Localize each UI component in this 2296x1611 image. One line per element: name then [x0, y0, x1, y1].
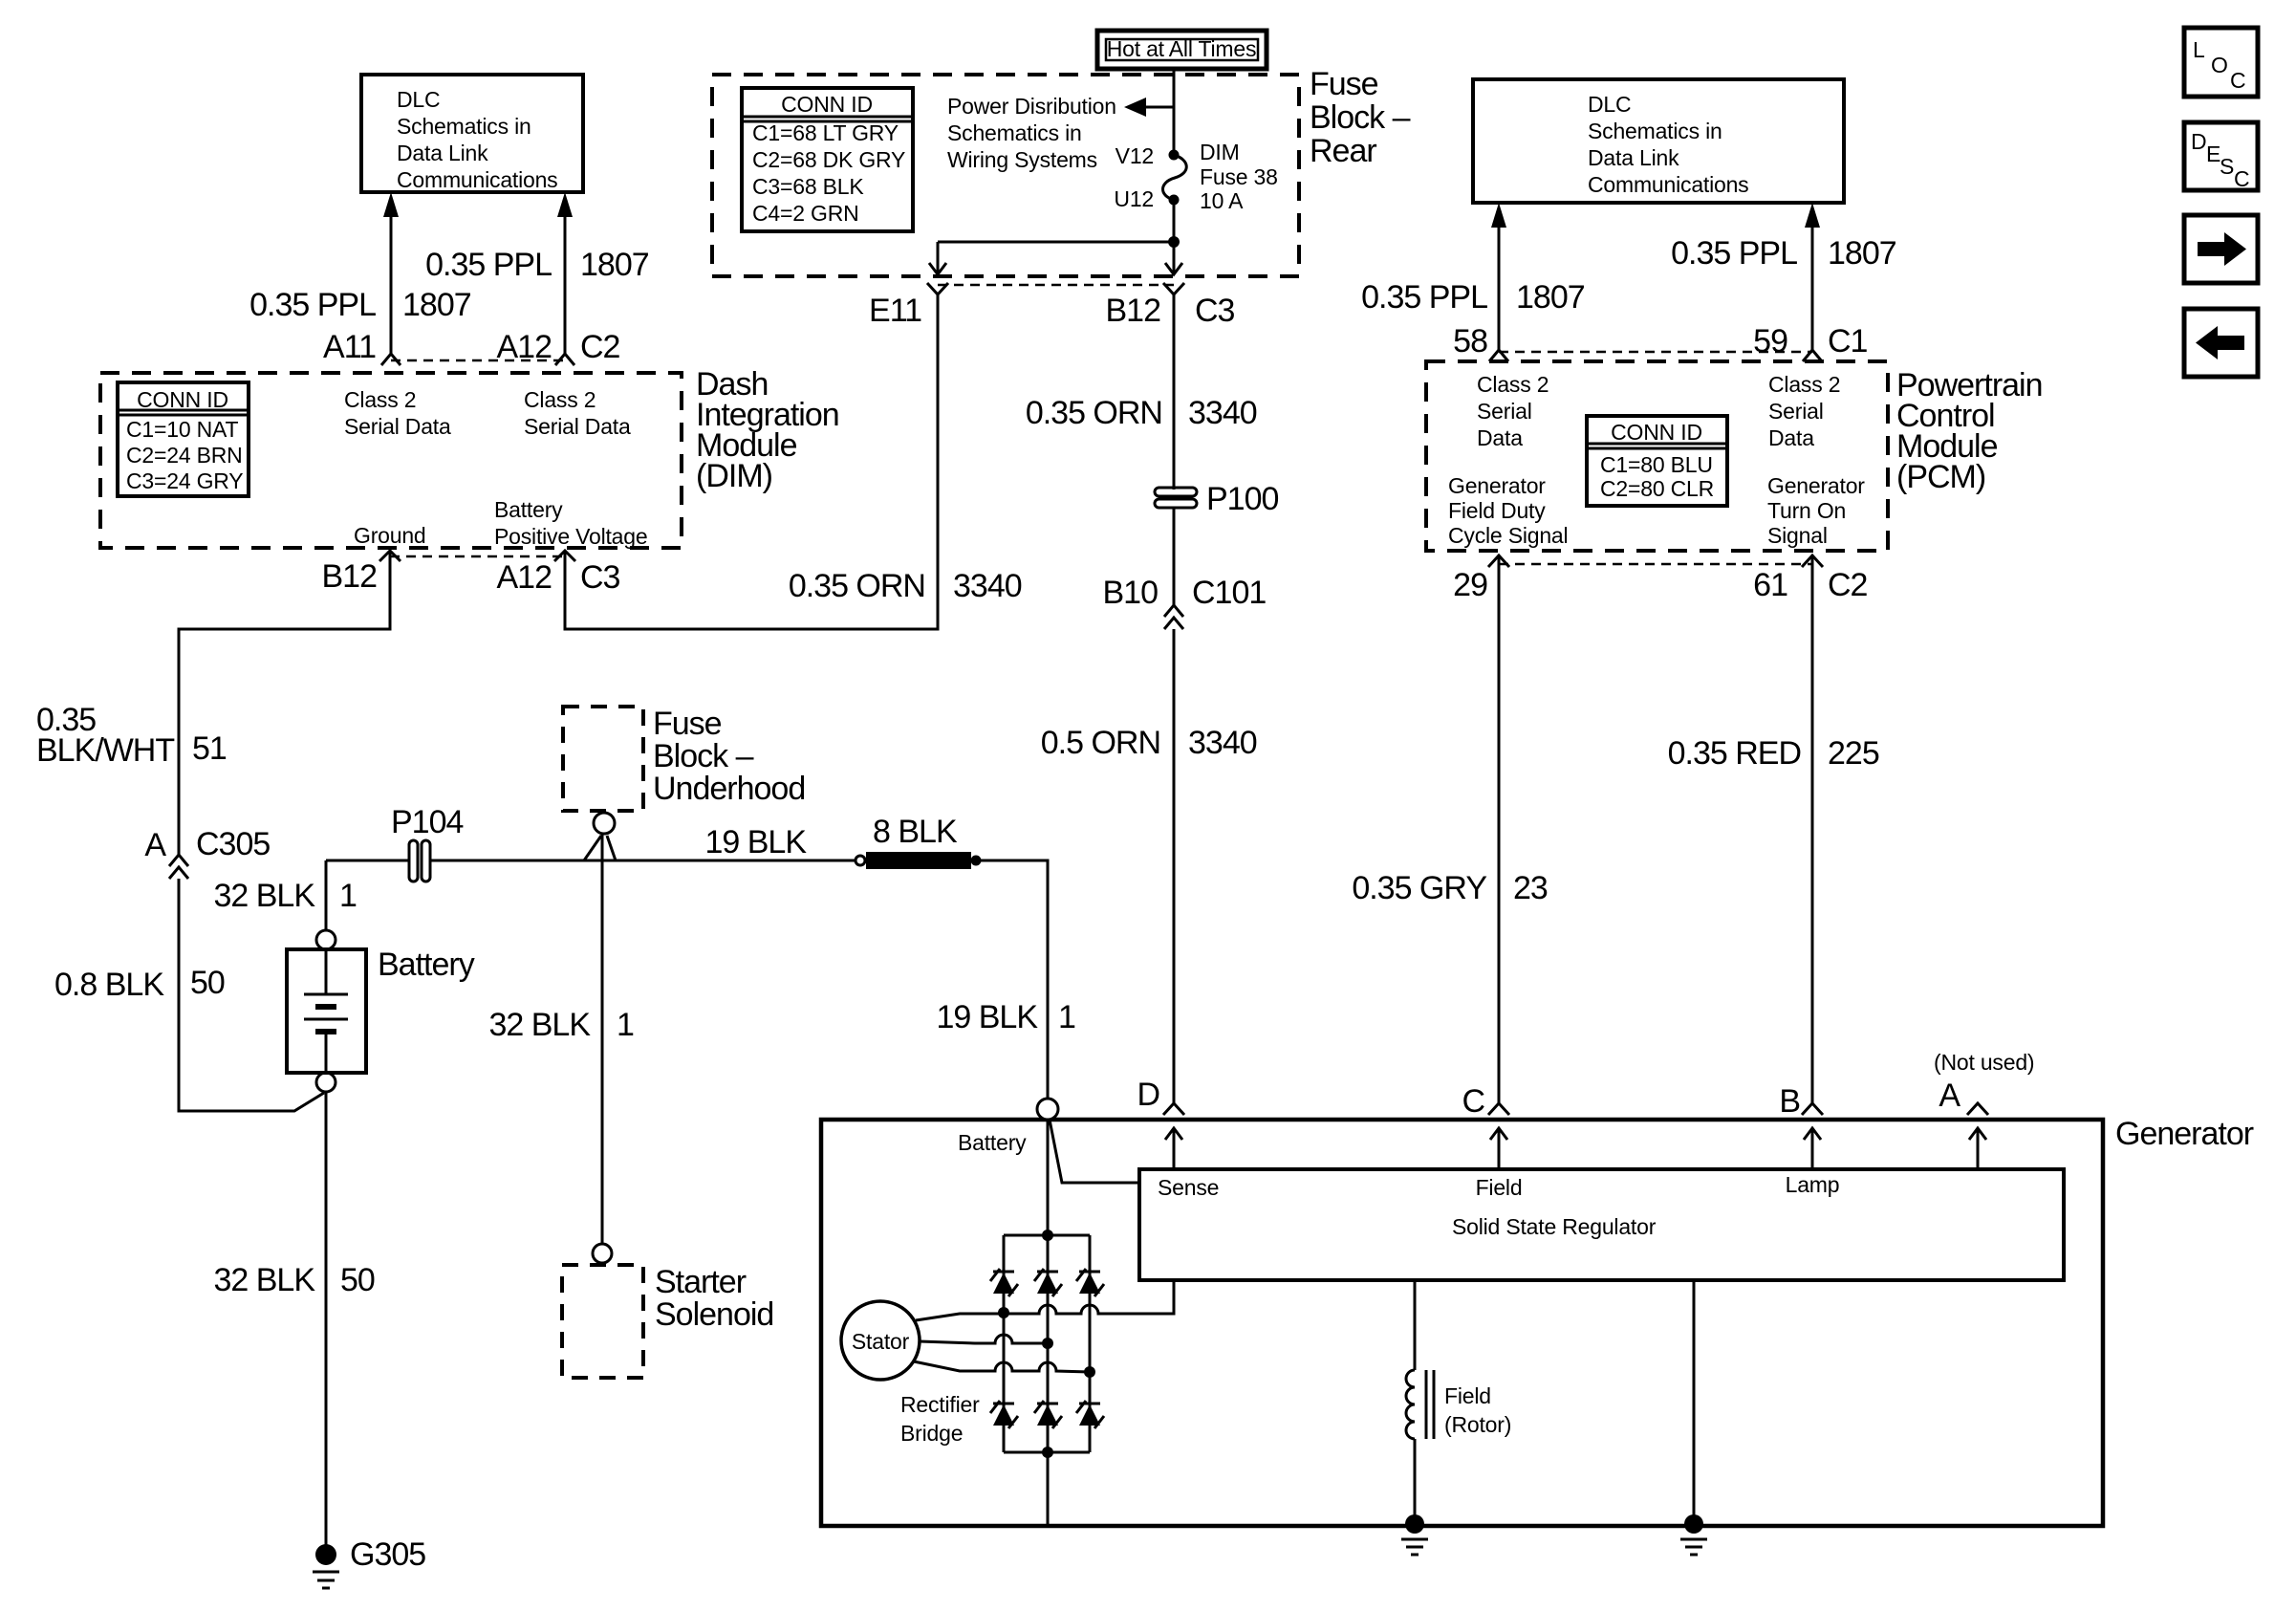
svg-text:C: C [1462, 1083, 1484, 1120]
svg-text:8 BLK: 8 BLK [873, 814, 958, 850]
svg-text:Starter: Starter [655, 1264, 747, 1300]
Starter Solenoid title [655, 1264, 773, 1333]
connector pin E11 [927, 283, 948, 294]
Generator box [821, 1120, 2103, 1526]
junction dot phase2-mid rail [1042, 1338, 1053, 1349]
svg-text:Rear: Rear [1310, 133, 1376, 169]
Fuse Block Underhood title [653, 706, 805, 807]
Fuse Block Rear CONN ID table [742, 88, 913, 231]
svg-text:(Rotor): (Rotor) [1444, 1412, 1511, 1437]
wire B12/C3 to P100 [1173, 294, 1176, 490]
note Power Disribution Schematics in Wiring Systems [947, 94, 1116, 172]
generator battery terminal circle [1037, 1099, 1058, 1120]
label 0.35 PPL 1807 (A11 wire) [249, 287, 471, 323]
fuse value label DIM Fuse 38 10 A [1200, 140, 1278, 213]
rectifier bridge frame [1004, 1235, 1090, 1452]
LOC icon box [2184, 28, 2258, 97]
fuse block underhood terminal circle [594, 813, 615, 834]
splice 8 BLK open circle [856, 856, 865, 865]
pin labels 58 59 C1 [1453, 323, 1867, 359]
PCM CONN ID table [1587, 416, 1727, 506]
label 0.35 PPL 1807 (pin 59 wire) [1671, 235, 1896, 272]
grommet P100 [1155, 488, 1197, 508]
wire pin59 to DLC with arrow [1805, 203, 1820, 351]
svg-text:50: 50 [340, 1262, 375, 1298]
diode D6 (bottom right) [1076, 1401, 1104, 1428]
DIM connector strip (bottom) [390, 555, 565, 558]
pin labels E11 B12 C3 [869, 293, 1235, 329]
PCM pin text Generator Turn On Signal [1767, 473, 1865, 548]
svg-text:32 BLK: 32 BLK [213, 878, 315, 914]
PCM dashed box [1426, 361, 1888, 551]
pin labels B12 A12 C3 [322, 558, 620, 596]
PCM pin text Class 2 Serial Data (58) [1477, 372, 1549, 450]
svg-text:Solid State Regulator: Solid State Regulator [1452, 1214, 1657, 1239]
svg-text:CONN ID: CONN ID [137, 387, 228, 412]
Solid State Regulator box [1139, 1169, 2064, 1280]
junction dot below fuse [1168, 236, 1180, 248]
internal arrow D [1165, 1128, 1182, 1169]
svg-text:DLC: DLC [397, 87, 440, 112]
wire 29 to generator C [1498, 557, 1501, 1103]
svg-text:(PCM): (PCM) [1896, 459, 1985, 495]
pin labels A11 A12 C2 [323, 329, 620, 365]
svg-text:0.35 PPL: 0.35 PPL [1361, 279, 1487, 316]
diode D4 (bottom left) [990, 1401, 1018, 1428]
DLC box (right) [1473, 79, 1844, 203]
label 0.35 GRY 23 [1352, 870, 1548, 906]
connector pin 59/C1 [1803, 350, 1822, 361]
battery bottom terminal circle [316, 1073, 336, 1092]
left arrow icon box [2184, 309, 2258, 377]
svg-text:C: C [2234, 166, 2249, 191]
label 19 BLK 1 (generator battery wire) [936, 999, 1075, 1035]
svg-text:Communications: Communications [397, 167, 558, 192]
svg-text:Data: Data [1768, 425, 1814, 450]
svg-text:59: 59 [1753, 323, 1787, 359]
Hot at All Times box [1097, 31, 1267, 69]
connector pin A12/C3 (DIM bottom) [554, 551, 575, 561]
diode D1 (top left) [990, 1269, 1018, 1296]
stator phase 3 wire (hops left and mid rails) [914, 1361, 1090, 1372]
svg-text:Class 2: Class 2 [1477, 372, 1549, 397]
Fuse Block Underhood dashed box [563, 707, 643, 811]
svg-text:3340: 3340 [1188, 725, 1257, 761]
svg-text:E: E [2206, 142, 2220, 166]
wire A12 to DLC with arrow [557, 192, 573, 355]
svg-text:Power Disribution: Power Disribution [947, 94, 1116, 119]
Fuse Block Rear dashed box [712, 75, 1299, 276]
label 0.35 RED 225 [1668, 735, 1879, 772]
svg-text:0.35 ORN: 0.35 ORN [789, 568, 925, 604]
svg-text:C4=2 GRN: C4=2 GRN [752, 201, 859, 226]
wire generator battery bus (vertical through rectifier) [1047, 1120, 1050, 1524]
svg-text:Block –: Block – [1310, 99, 1411, 136]
svg-text:Lamp: Lamp [1786, 1172, 1840, 1197]
svg-text:Class 2: Class 2 [524, 387, 596, 412]
svg-text:C1=80 BLU: C1=80 BLU [1600, 452, 1713, 477]
svg-text:B: B [1779, 1083, 1800, 1120]
svg-text:1807: 1807 [1828, 235, 1896, 272]
svg-text:P100: P100 [1206, 481, 1278, 517]
wire lamp return to ground [1693, 1280, 1696, 1524]
junction dot phase1-left rail [998, 1307, 1009, 1318]
fuse block underhood terminal Y [584, 836, 616, 860]
arrow to power distribution [1124, 98, 1174, 117]
svg-text:3340: 3340 [1188, 395, 1257, 431]
svg-text:23: 23 [1513, 870, 1548, 906]
label 0.35 BLK/WHT 51 [36, 702, 227, 769]
field rotor coil [1406, 1370, 1434, 1439]
fuse DIM Fuse 38 10A (element) [1163, 155, 1187, 200]
internal arrow A [1969, 1128, 1986, 1169]
svg-text:0.35 PPL: 0.35 PPL [249, 287, 376, 323]
svg-text:1807: 1807 [1516, 279, 1585, 316]
svg-text:0.35 RED: 0.35 RED [1668, 735, 1801, 772]
diode D5 (bottom mid) [1034, 1401, 1062, 1428]
connector pin A (generator, not used) [1967, 1103, 1988, 1115]
DIM module title [696, 366, 839, 494]
svg-text:CONN ID: CONN ID [1611, 420, 1702, 445]
connector C305 (double chevron) [169, 855, 188, 879]
svg-text:C2: C2 [580, 329, 620, 365]
wire battery positive up [325, 860, 328, 930]
label 0.35 ORN 3340 (E11 wire) [789, 568, 1022, 604]
svg-text:0.35 PPL: 0.35 PPL [1671, 235, 1797, 272]
label 0.8 BLK 50 [54, 965, 225, 1003]
svg-text:Serial: Serial [1477, 399, 1532, 424]
svg-text:G305: G305 [350, 1536, 425, 1573]
battery box [287, 949, 366, 1073]
svg-text:Signal: Signal [1767, 523, 1828, 548]
svg-text:C1=10 NAT: C1=10 NAT [126, 417, 238, 442]
svg-text:D: D [1137, 1077, 1159, 1113]
junction dot bridge top [1042, 1230, 1053, 1241]
svg-text:C: C [2230, 68, 2245, 93]
svg-text:L: L [2193, 37, 2205, 62]
wire 61 to generator B [1811, 557, 1814, 1103]
connector pin D (generator) [1163, 1103, 1184, 1115]
DIM pin text Class 2 Serial Data (A11) [344, 387, 451, 439]
svg-text:Generator: Generator [1767, 473, 1865, 498]
svg-text:Data Link: Data Link [1588, 145, 1679, 170]
Fuse Block Rear connector strip (bottom) [938, 284, 1174, 287]
svg-text:D: D [2191, 129, 2206, 154]
wire battery terminal to sense [1050, 1120, 1139, 1183]
svg-text:A: A [144, 827, 166, 863]
label 32 BLK 50 [213, 1262, 374, 1298]
wire from Hot at All Times to fuse [1173, 67, 1176, 153]
svg-text:0.35 GRY: 0.35 GRY [1352, 870, 1486, 906]
svg-text:Fuse: Fuse [1310, 66, 1378, 102]
svg-text:Field: Field [1444, 1383, 1491, 1408]
PCM pin text Generator Field Duty Cycle Signal [1448, 473, 1568, 548]
wire A11 to DLC with arrow [383, 192, 399, 355]
connector pin B12/C3 (fuse block) [1163, 283, 1184, 294]
splice 8 BLK heavy cable [866, 852, 971, 869]
internal arrow B (Lamp) [1804, 1128, 1821, 1169]
junction dot bridge bottom [1042, 1447, 1053, 1458]
svg-text:B12: B12 [322, 558, 378, 595]
svg-text:Field: Field [1476, 1175, 1523, 1200]
svg-text:Turn On: Turn On [1767, 498, 1846, 523]
pin labels V12 U12 [1114, 143, 1154, 211]
svg-text:Stator: Stator [852, 1329, 910, 1354]
battery top terminal circle [316, 930, 336, 949]
svg-text:C1=68 LT GRY: C1=68 LT GRY [752, 120, 899, 145]
DIM CONN ID table [118, 382, 249, 496]
wire A12/C3 battery feed (DIM to fuse block rear E11) [565, 294, 938, 629]
svg-text:C305: C305 [196, 826, 270, 862]
svg-text:Solenoid: Solenoid [655, 1296, 773, 1333]
svg-text:10 A: 10 A [1200, 188, 1244, 213]
svg-text:E11: E11 [869, 293, 921, 329]
label 32 BLK 1 (starter wire) [488, 1007, 634, 1043]
connector pin 58 [1489, 350, 1508, 361]
svg-text:C1: C1 [1828, 323, 1868, 359]
svg-text:58: 58 [1453, 323, 1487, 359]
field rotor coil wire from regulator [1414, 1280, 1417, 1370]
svg-text:U12: U12 [1114, 186, 1154, 211]
pin labels 29 61 C2 [1453, 567, 1867, 603]
DIM pin text Class 2 Serial Data (A12) [524, 387, 631, 439]
svg-text:Generator: Generator [1448, 473, 1546, 498]
svg-text:C2=68 DK GRY: C2=68 DK GRY [752, 147, 905, 172]
svg-text:Communications: Communications [1588, 172, 1749, 197]
label 0.35 PPL 1807 (A12 wire) [425, 247, 649, 283]
svg-text:Serial Data: Serial Data [524, 414, 631, 439]
wire battery negative to G305 [325, 1092, 328, 1546]
splice 8 BLK end dot [971, 856, 982, 866]
svg-text:Positive Voltage: Positive Voltage [494, 524, 647, 549]
PCM pin text Class 2 Serial Data (59) [1768, 372, 1840, 450]
connector pin B (generator) [1802, 1103, 1823, 1115]
svg-text:19 BLK: 19 BLK [704, 824, 807, 860]
DESC icon box [2184, 122, 2258, 191]
starter solenoid terminal circle [593, 1244, 612, 1263]
wire C101 to generator D [1173, 629, 1176, 1103]
svg-text:Hot at All Times: Hot at All Times [1107, 36, 1257, 61]
DIM dashed box [100, 373, 682, 548]
wire E11 drop with open arrow [929, 242, 946, 274]
grommet P104 [409, 840, 430, 882]
svg-text:32 BLK: 32 BLK [213, 1262, 315, 1298]
svg-text:50: 50 [190, 965, 225, 1001]
svg-text:1: 1 [1058, 999, 1075, 1035]
label 0.35 ORN 3340 (P100 wire) [1026, 395, 1257, 431]
svg-text:Class 2: Class 2 [1768, 372, 1840, 397]
svg-text:0.5 ORN: 0.5 ORN [1041, 725, 1160, 761]
svg-text:Generator: Generator [2115, 1116, 2254, 1152]
svg-text:B10: B10 [1103, 575, 1159, 611]
connector pin A11 [381, 354, 401, 365]
svg-text:Schematics in: Schematics in [397, 114, 531, 139]
Starter Solenoid dashed box [562, 1265, 643, 1378]
stator winding circle [841, 1301, 920, 1380]
svg-text:1: 1 [617, 1007, 634, 1043]
internal arrow C (Field) [1490, 1128, 1507, 1169]
svg-text:1807: 1807 [402, 287, 471, 323]
svg-text:Ground: Ground [354, 523, 426, 548]
svg-text:Rectifier: Rectifier [900, 1392, 980, 1417]
svg-text:Class 2: Class 2 [344, 387, 416, 412]
svg-text:BLK/WHT: BLK/WHT [36, 732, 174, 769]
stator phase 1 wire (hops mid and right rails) [916, 1282, 1174, 1320]
PCM module title [1896, 367, 2043, 495]
svg-text:P104: P104 [391, 804, 463, 840]
svg-text:0.35 ORN: 0.35 ORN [1026, 395, 1162, 431]
diode D2 (top mid) [1034, 1269, 1062, 1296]
wire 0.8 BLK 50 (C305 to battery negative) [179, 879, 324, 1111]
wire fuse output [1173, 200, 1176, 274]
svg-text:Data: Data [1477, 425, 1523, 450]
svg-text:Battery: Battery [958, 1130, 1027, 1155]
svg-text:C2: C2 [1828, 567, 1868, 603]
ground (lamp) [1680, 1514, 1707, 1555]
svg-text:0.35 PPL: 0.35 PPL [425, 247, 552, 283]
stator phase 2 wire (hops left rail) [920, 1335, 1048, 1343]
svg-text:Block –: Block – [653, 738, 754, 774]
svg-text:0.8 BLK: 0.8 BLK [54, 967, 164, 1003]
svg-text:225: 225 [1828, 735, 1879, 772]
svg-text:S: S [2220, 154, 2234, 179]
svg-text:CONN ID: CONN ID [781, 92, 873, 117]
svg-text:Battery: Battery [494, 497, 563, 522]
fuse terminal V12 (dot) [1169, 150, 1180, 161]
diode D3 (top right) [1076, 1269, 1104, 1296]
Fuse Block Rear title [1310, 66, 1411, 169]
battery cell symbol [304, 949, 348, 1073]
connector pin B12 (DIM bottom) [379, 551, 401, 561]
label Rectifier Bridge [900, 1392, 980, 1446]
svg-text:C3=68 BLK: C3=68 BLK [752, 174, 864, 199]
svg-text:Cycle Signal: Cycle Signal [1448, 523, 1568, 548]
svg-text:Serial: Serial [1768, 399, 1824, 424]
svg-text:1807: 1807 [580, 247, 649, 283]
wire pin58 to DLC with arrow [1491, 203, 1506, 351]
PCM connector strip (bottom) [1499, 563, 1812, 566]
svg-text:Sense: Sense [1158, 1175, 1219, 1200]
svg-text:32 BLK: 32 BLK [488, 1007, 591, 1043]
svg-text:61: 61 [1753, 567, 1787, 603]
right arrow icon box [2184, 215, 2258, 283]
svg-text:DLC: DLC [1588, 92, 1631, 117]
wire main positive run [326, 860, 410, 862]
label 32 BLK 1 (battery positive) [213, 878, 357, 914]
ground (field) [1401, 1514, 1428, 1555]
svg-text:Fuse 38: Fuse 38 [1200, 164, 1278, 189]
svg-text:C3=24 GRY: C3=24 GRY [126, 468, 243, 493]
open arrow at B12 exit [1165, 263, 1182, 274]
svg-text:C101: C101 [1192, 575, 1266, 611]
svg-text:C3: C3 [580, 559, 620, 596]
svg-text:1: 1 [339, 878, 357, 914]
pin label B10 / C101 [1103, 575, 1267, 611]
svg-text:Bridge: Bridge [900, 1421, 963, 1446]
DLC box (left) [361, 75, 583, 192]
svg-text:3340: 3340 [953, 568, 1022, 604]
connector pin 29 (PCM bottom) [1488, 555, 1509, 567]
label 0.5 ORN 3340 [1041, 725, 1257, 761]
svg-text:O: O [2211, 53, 2228, 77]
svg-text:29: 29 [1453, 567, 1487, 603]
svg-text:Serial Data: Serial Data [344, 414, 451, 439]
svg-text:C2=24 BRN: C2=24 BRN [126, 443, 243, 468]
DIM pin text Battery Positive Voltage [494, 497, 647, 549]
svg-text:C2=80 CLR: C2=80 CLR [1600, 476, 1714, 501]
svg-text:Data Link: Data Link [397, 141, 488, 165]
connector pin C (generator) [1488, 1103, 1509, 1115]
svg-text:19 BLK: 19 BLK [936, 999, 1038, 1035]
svg-text:51: 51 [192, 730, 227, 767]
svg-text:A12: A12 [497, 559, 552, 596]
svg-text:Battery: Battery [378, 947, 475, 983]
svg-text:Field Duty: Field Duty [1448, 498, 1546, 523]
svg-text:Schematics in: Schematics in [947, 120, 1082, 145]
wire B12 ground run (DIM to C305) [179, 553, 390, 855]
svg-text:Wiring Systems: Wiring Systems [947, 147, 1097, 172]
wire branch to E11 [938, 241, 1174, 244]
fuse terminal U12 (dot) [1169, 195, 1180, 206]
svg-text:(DIM): (DIM) [696, 458, 772, 494]
wire coil to ground [1414, 1439, 1417, 1524]
connector pin A12/C2 [555, 354, 574, 365]
svg-text:C3: C3 [1195, 293, 1235, 329]
DIM connector strip (top) [391, 359, 565, 362]
pin label A / C305 [144, 826, 270, 863]
junction dot phase3-right rail [1084, 1366, 1095, 1378]
svg-text:Underhood: Underhood [653, 771, 805, 807]
svg-text:Fuse: Fuse [653, 706, 722, 742]
svg-text:Schematics in: Schematics in [1588, 119, 1722, 143]
ground G305 [313, 1544, 339, 1588]
svg-text:(Not used): (Not used) [1934, 1050, 2034, 1075]
wire 8 BLK to generator battery terminal [981, 860, 1048, 1098]
wire P104 to underhood junction [430, 860, 856, 862]
svg-text:V12: V12 [1116, 143, 1154, 168]
svg-text:B12: B12 [1106, 293, 1161, 329]
connector C101 (double chevron) [1164, 605, 1183, 629]
label Field (Rotor) [1444, 1383, 1511, 1437]
svg-text:A11: A11 [323, 329, 376, 365]
svg-text:DIM: DIM [1200, 140, 1240, 164]
connector pin 61/C2 (PCM bottom) [1802, 555, 1823, 567]
label 0.35 PPL 1807 (pin 58 wire) [1361, 279, 1585, 316]
wire P100 to C101 [1173, 508, 1176, 605]
PCM connector strip (top) [1499, 351, 1812, 354]
svg-text:A: A [1939, 1078, 1960, 1114]
wire underhood to starter solenoid [601, 835, 604, 1244]
